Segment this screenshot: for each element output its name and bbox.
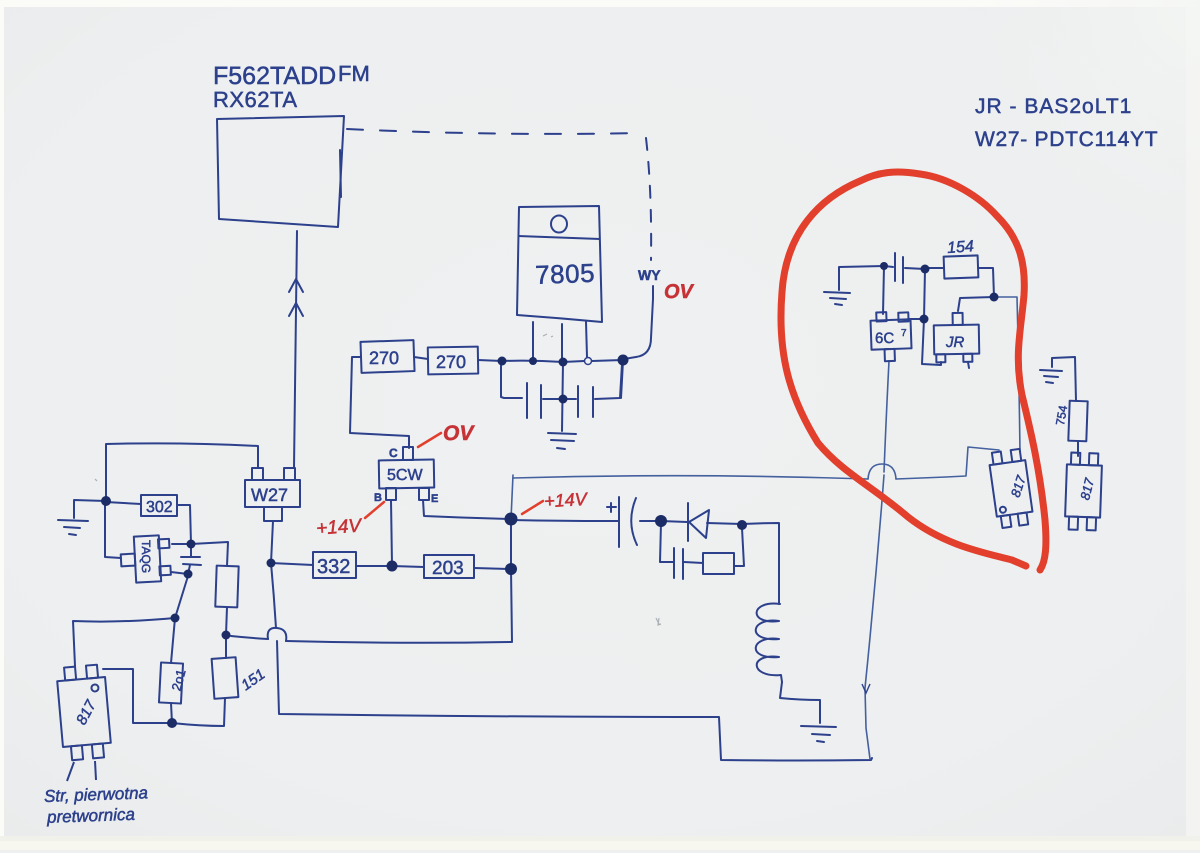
svg-text:C: C [389,446,398,460]
svg-text:W27: W27 [251,485,288,505]
svg-text:203: 203 [432,558,464,579]
svg-text:5CW: 5CW [387,467,423,484]
svg-text:270: 270 [436,352,466,372]
svg-text:B: B [374,492,382,504]
svg-text:RX62TA: RX62TA [213,87,298,112]
svg-text:6C: 6C [875,330,894,347]
svg-text:FM: FM [338,61,370,86]
svg-text:332: 332 [317,556,350,578]
svg-text:F562TADD: F562TADD [213,62,336,90]
svg-text:OV: OV [664,281,695,303]
svg-text:+14V: +14V [544,489,590,511]
svg-text:154: 154 [947,238,975,257]
svg-text:WY: WY [638,267,661,283]
svg-text:302: 302 [146,499,173,516]
svg-text:7805: 7805 [535,258,596,290]
svg-text:Str, pierwotna: Str, pierwotna [44,783,149,806]
svg-text:JR - BAS2oLT1: JR - BAS2oLT1 [975,95,1132,118]
svg-text:E: E [431,493,438,505]
svg-text:JR: JR [945,334,965,351]
svg-text:pretwornica: pretwornica [46,805,135,827]
svg-text:W27- PDTC114YT: W27- PDTC114YT [975,128,1158,151]
svg-text:+14V: +14V [316,515,365,539]
svg-text:OV: OV [443,422,475,445]
svg-text:TAQG: TAQG [139,540,153,573]
svg-text:270: 270 [369,348,399,368]
svg-text:7: 7 [901,328,907,339]
